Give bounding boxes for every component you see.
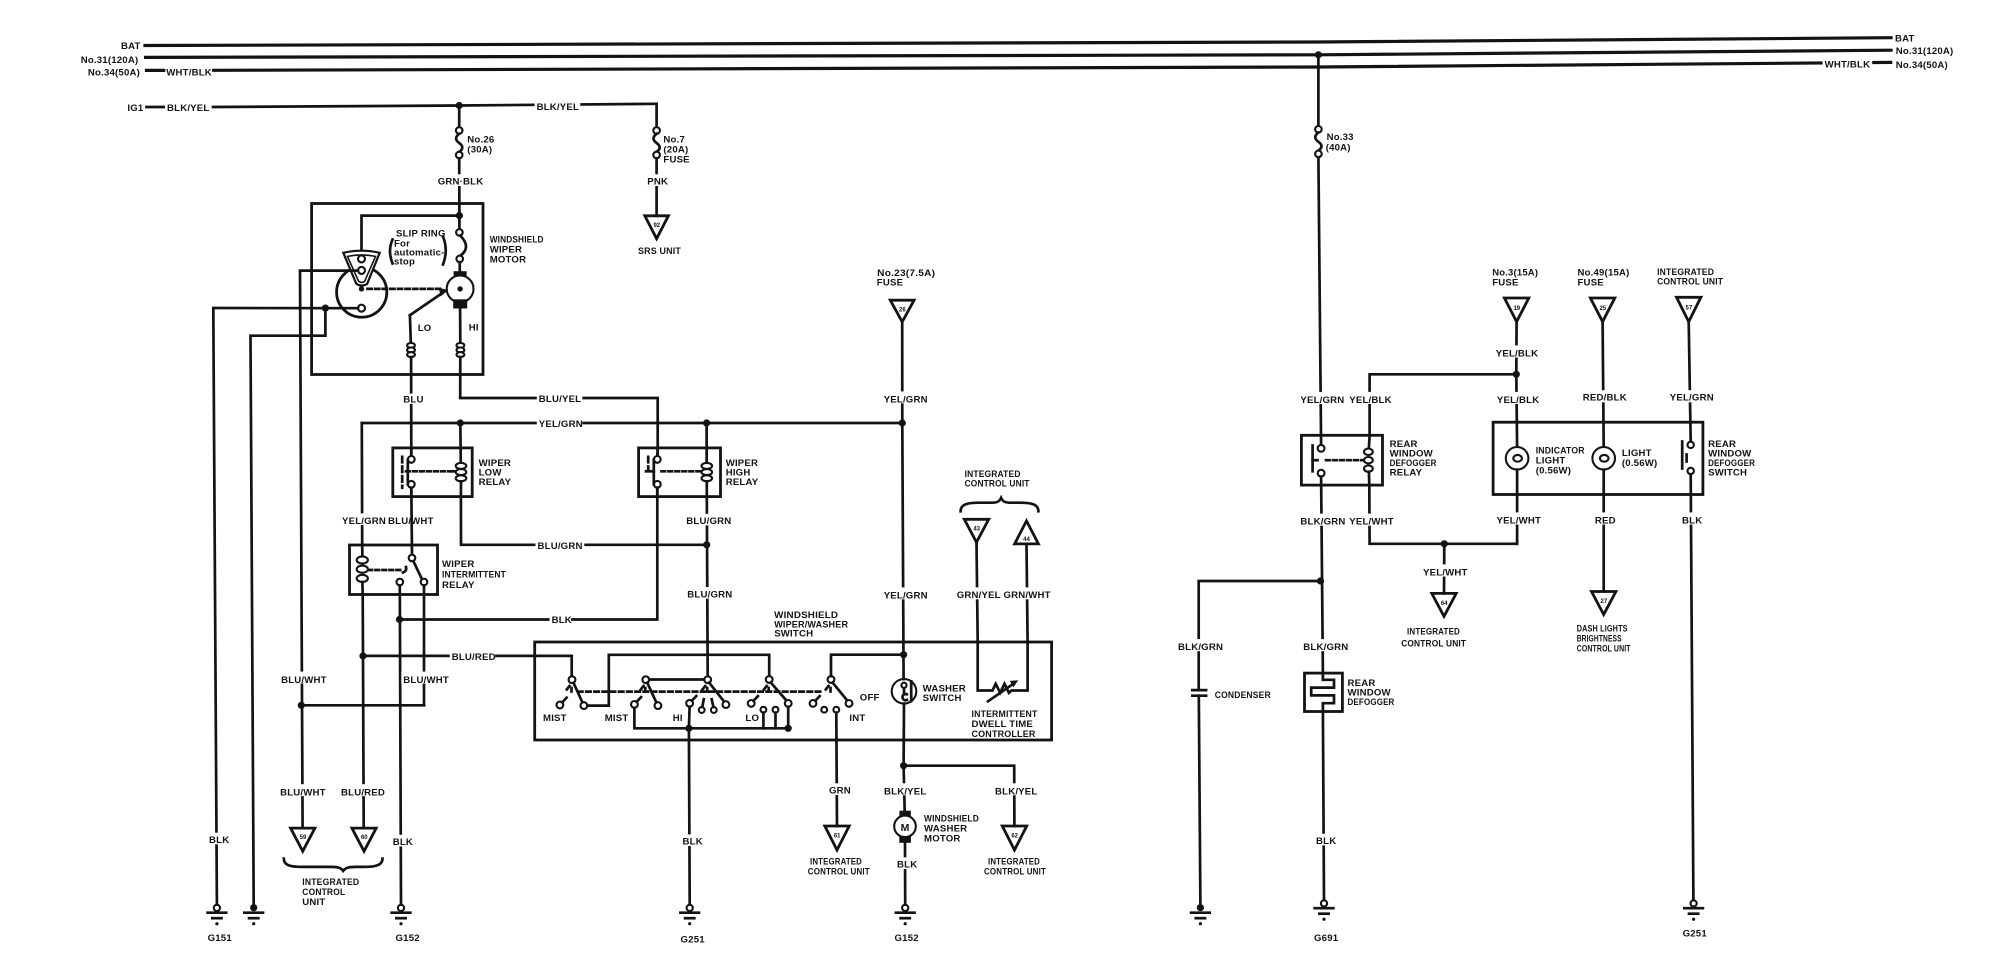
brace integrated control unit (left) <box>284 859 383 871</box>
junction LO ground bus <box>785 725 792 732</box>
label YEL/GRN (on wire) <box>537 417 583 429</box>
svg-text:INTEGRATED: INTEGRATED <box>1407 627 1460 638</box>
condenser <box>1192 690 1206 696</box>
defogger relay coil <box>1364 435 1373 485</box>
svg-text:44: 44 <box>1023 537 1030 543</box>
svg-text:HI: HI <box>673 713 683 724</box>
high relay coil <box>702 423 713 497</box>
svg-text:YEL/GRN: YEL/GRN <box>1300 395 1344 406</box>
label BLK (on wire) <box>895 857 916 869</box>
windshield washer motor <box>894 811 916 843</box>
label YEL/BLK (on wire) <box>1494 345 1539 357</box>
indicator light / defogger switch box <box>1493 422 1703 494</box>
svg-text:CONTROL UNIT: CONTROL UNIT <box>1401 639 1466 650</box>
low relay actuation dashes <box>406 470 451 473</box>
svg-text:MOTOR: MOTOR <box>490 255 527 266</box>
label YEL/WHT (on wire) <box>1421 564 1467 576</box>
intermittent relay actuation dashes <box>369 569 403 572</box>
junction YEL/GRN to low relay coil <box>457 419 464 426</box>
wire G251 ground bus down <box>688 728 691 905</box>
MIST switch 2 <box>631 676 661 709</box>
label PNK (on wire) <box>645 174 668 186</box>
OFF/INT switch <box>810 676 853 713</box>
wire YEL/WHT to connector 64 <box>1443 544 1446 594</box>
label BLK/YEL mid (on wire) <box>535 100 581 111</box>
wire BLK defogger to ground <box>1323 712 1324 901</box>
label SLIP RING (For automatic stop) <box>390 229 446 268</box>
wire BLK/GRN relay contact down <box>1321 477 1323 673</box>
label YEL/GRN (on wire) <box>340 513 383 525</box>
junction at washer column <box>900 651 907 658</box>
svg-text:SWITCH: SWITCH <box>1708 467 1747 478</box>
label BLU/RED (on wire) <box>450 649 495 661</box>
svg-text:WIPER: WIPER <box>442 559 474 570</box>
slip ring wiper wedge <box>343 251 379 286</box>
junction BLU/RED <box>359 652 366 659</box>
svg-text:57: 57 <box>1686 305 1693 311</box>
svg-text:62: 62 <box>1011 834 1018 840</box>
label YEL/GRN upper (on wire) <box>882 391 928 403</box>
svg-text:RELAY: RELAY <box>726 477 759 488</box>
high relay actuation dashes <box>662 470 701 473</box>
label BLK/GRN (on wire) <box>1298 514 1345 526</box>
wire YEL/GRN ICU to defogger switch <box>1689 322 1691 442</box>
label GRN (on wire) <box>827 783 849 795</box>
wire BLU/RED from intermittent coil <box>363 595 364 829</box>
connector 43 integrated control unit <box>964 519 988 542</box>
svg-text:YEL/GRN: YEL/GRN <box>539 419 583 430</box>
svg-text:DEFOGGER: DEFOGGER <box>1348 697 1395 708</box>
HI switch <box>686 676 729 713</box>
svg-text:43: 43 <box>973 527 980 533</box>
wire YEL/WHT relay coil down <box>1369 485 1516 544</box>
svg-text:BLU/WHT: BLU/WHT <box>281 675 327 686</box>
svg-text:BLU/GRN: BLU/GRN <box>686 516 731 527</box>
wire intermittent relay arm to BLU/WHT junction <box>423 585 426 705</box>
svg-text:CONTROL UNIT: CONTROL UNIT <box>808 867 870 878</box>
wire YEL/BLK to indicator light <box>1515 374 1518 447</box>
wire BLU/YEL (HI to wiper high relay) <box>460 357 658 456</box>
svg-text:BLU/GRN: BLU/GRN <box>687 589 732 600</box>
label BLU/YEL (on wire) <box>537 392 583 404</box>
svg-text:UNIT: UNIT <box>302 897 325 908</box>
svg-text:CONTROL UNIT: CONTROL UNIT <box>965 479 1030 490</box>
svg-text:YEL/GRN: YEL/GRN <box>884 590 928 601</box>
svg-text:LO: LO <box>745 713 759 724</box>
wire OFF/INT pivot to washer column <box>831 655 904 676</box>
label RED/BLK (on wire) <box>1581 390 1627 402</box>
svg-text:MOTOR: MOTOR <box>924 834 961 845</box>
svg-text:92: 92 <box>653 223 660 229</box>
svg-text:FUSE: FUSE <box>877 277 904 288</box>
svg-text:G152: G152 <box>396 933 420 944</box>
svg-text:MIST: MIST <box>543 713 567 724</box>
svg-text:26: 26 <box>899 308 906 314</box>
label BLK (on wire) <box>550 613 571 624</box>
wire BLK/YEL to fuse No.7 <box>655 104 658 128</box>
wire YEL/WHT indicator light down <box>1516 470 1519 544</box>
wire condenser to ground <box>1199 696 1201 905</box>
svg-text:BLK/YEL: BLK/YEL <box>167 103 209 114</box>
svg-text:G251: G251 <box>1683 929 1708 940</box>
svg-text:(0.56W): (0.56W) <box>1622 458 1658 469</box>
svg-text:GRN/WHT: GRN/WHT <box>1004 590 1051 601</box>
svg-text:BLK/YEL: BLK/YEL <box>884 786 926 797</box>
svg-text:IG1: IG1 <box>127 103 144 114</box>
wire MIST2 pivot to HI pivot <box>649 678 704 681</box>
wiper high relay box <box>639 448 721 497</box>
svg-text:YEL/WHT: YEL/WHT <box>1349 517 1394 528</box>
label BLK/YEL left (on wire) <box>882 783 928 795</box>
intermittent relay coil <box>357 556 368 594</box>
connector 61 to integrated control unit <box>825 826 849 850</box>
junction YEL/GRN at fuse 23 column <box>899 419 906 426</box>
slip ring pivot dot <box>359 286 364 291</box>
ground G151 <box>208 905 227 926</box>
wire LO arm contact to ground bus <box>787 707 790 729</box>
label YEL/GRN (on wire) <box>1298 392 1344 404</box>
label BLU/GRN lower (on wire) <box>685 587 731 599</box>
wire branch to chassis ground <box>251 308 326 905</box>
junction ground bus G251 <box>685 725 692 732</box>
light bulb <box>1592 447 1615 470</box>
svg-text:RELAY: RELAY <box>442 580 475 591</box>
wire PNK <box>655 158 658 216</box>
label BLU/GRN (on wire) <box>536 539 585 551</box>
svg-text:(40A): (40A) <box>1326 142 1351 153</box>
svg-text:RED: RED <box>1595 516 1616 527</box>
indicator light bulb <box>1506 447 1529 470</box>
ground G152 (washer motor) <box>896 905 915 926</box>
wire YEL/GRN down to washer switch <box>902 423 903 679</box>
label BLK/YEL right (on wire) <box>993 783 1039 795</box>
label GRN/YEL (on wire) <box>955 587 999 599</box>
junction BLU/WHT branch <box>298 702 305 709</box>
junction fuse No.3 column <box>1513 371 1520 378</box>
svg-text:stop: stop <box>394 257 415 268</box>
wire washer switch to washer motor <box>902 704 905 766</box>
switch mechanical link dashes <box>578 690 822 693</box>
label BLU/WHT upper (on wire) <box>279 672 324 684</box>
label YEL/WHT (on wire) <box>1495 512 1541 524</box>
connector 57 from integrated control unit <box>1677 297 1701 321</box>
dashed link slip ring to motor <box>368 288 444 291</box>
wire intermittent relay to G152 <box>400 585 401 905</box>
svg-text:YEL/WHT: YEL/WHT <box>1423 568 1468 579</box>
junction bus No.31 / fuse No.33 <box>1315 51 1322 58</box>
intermittent dwell time controller <box>978 642 1028 702</box>
connector 44 integrated control unit (upright) <box>1015 521 1039 544</box>
ground G251 <box>680 905 699 926</box>
svg-text:LO: LO <box>418 323 432 334</box>
junction BLK/YEL branch <box>900 762 907 769</box>
label RED (on wire) <box>1593 512 1616 524</box>
wire slip ring middle terminal to left <box>300 271 358 829</box>
low relay contact <box>402 448 414 497</box>
svg-text:BLU/RED: BLU/RED <box>341 787 385 798</box>
connector 59 to integrated control unit <box>291 828 315 851</box>
svg-text:RELAY: RELAY <box>1390 468 1423 479</box>
wire YEL/BLK relay coil up to fuse No.3 junction <box>1370 374 1517 435</box>
svg-text:BLK: BLK <box>1316 836 1336 847</box>
low relay coil <box>456 423 467 497</box>
svg-text:BLK/GRN: BLK/GRN <box>1178 642 1223 653</box>
wire to fuse No.26 <box>458 106 461 128</box>
svg-text:CONTROL UNIT: CONTROL UNIT <box>984 867 1046 878</box>
wiper low relay box <box>393 448 472 497</box>
wire BLK high relay contact to intermittent relay <box>400 488 658 620</box>
svg-text:BLK: BLK <box>1682 516 1702 527</box>
junction IG1/fuse No.26 <box>456 102 463 109</box>
svg-text:CONTROL UNIT: CONTROL UNIT <box>1577 644 1631 655</box>
label BLU/WHT right (on wire) <box>401 672 446 684</box>
wire INT contact to GRN <box>835 713 838 826</box>
fuse No.26 (30A) <box>456 127 463 158</box>
wire YEL/GRN fuse 23 to switch <box>901 322 904 423</box>
label YEL/GRN BLU/WHT row (low relay outputs) <box>386 513 432 525</box>
wiper intermittent relay box <box>350 545 438 595</box>
wire BLK/YEL branch to connector 62 <box>904 766 1015 826</box>
washer switch <box>892 679 917 704</box>
svg-text:BLU/YEL: BLU/YEL <box>539 394 581 405</box>
svg-text:YEL/GRN: YEL/GRN <box>342 516 386 527</box>
connector 26 from fuse No.23 <box>890 300 914 322</box>
svg-text:No.34(50A): No.34(50A) <box>88 68 140 79</box>
svg-text:FUSE: FUSE <box>1578 277 1605 288</box>
label BLK (on wire) <box>391 835 412 847</box>
svg-text:YEL/GRN: YEL/GRN <box>1670 392 1714 403</box>
chassis ground (condenser, solid) <box>1191 904 1210 925</box>
label BLK (on wire) <box>1314 834 1335 846</box>
svg-text:SWITCH: SWITCH <box>774 629 813 640</box>
wire slip ring bottom terminal to left (BLK) <box>213 308 358 905</box>
svg-text:GRN: GRN <box>829 786 851 797</box>
rear window defogger relay box <box>1301 435 1382 485</box>
label YEL/GRN lower (on wire) <box>882 587 928 599</box>
label BLU/GRN upper (on wire) <box>684 514 730 526</box>
wire IG1 BLK/YEL <box>147 106 164 109</box>
svg-text:BLK: BLK <box>683 837 703 848</box>
svg-text:BLK: BLK <box>209 835 229 846</box>
wire BLU/GRN low coil to high coil <box>461 497 707 545</box>
svg-text:BLU/RED: BLU/RED <box>452 652 496 663</box>
svg-text:WHT/BLK: WHT/BLK <box>1825 59 1871 70</box>
svg-text:YEL/GRN: YEL/GRN <box>884 394 928 405</box>
slip ring terminal bottom <box>358 305 365 312</box>
wire YEL/GRN fuse 33 to defogger relay <box>1318 157 1321 445</box>
svg-text:BLU: BLU <box>403 394 423 405</box>
connector 25 from fuse No.49 <box>1590 298 1614 322</box>
svg-text:G691: G691 <box>1314 933 1339 944</box>
bus line BAT <box>145 38 1891 46</box>
label GRN/WHT (on wire) <box>1002 587 1049 599</box>
wire MIST2 contact down to ground bus <box>634 708 788 729</box>
slip ring terminal top <box>358 255 365 262</box>
wire GRN/YEL to dwell controller <box>977 542 978 641</box>
svg-text:PNK: PNK <box>647 177 668 188</box>
svg-text:BLK/YEL: BLK/YEL <box>537 102 579 113</box>
svg-text:G152: G152 <box>895 933 919 944</box>
wire BLU/WHT horizontal <box>301 704 424 707</box>
svg-text:INTERMITTENT: INTERMITTENT <box>442 570 506 581</box>
svg-text:MIST: MIST <box>605 713 629 724</box>
slip ring terminal middle <box>358 267 365 274</box>
svg-text:FUSE: FUSE <box>1492 277 1519 288</box>
defogger relay actuation dashes <box>1326 459 1363 462</box>
svg-text:INT: INT <box>849 713 865 724</box>
svg-text:YEL/BLK: YEL/BLK <box>1497 395 1539 406</box>
svg-text:19: 19 <box>1513 306 1520 312</box>
svg-text:FUSE: FUSE <box>663 155 690 166</box>
label BLK (on wire) <box>1680 512 1701 524</box>
svg-text:No.31(120A): No.31(120A) <box>1896 46 1954 57</box>
wire BLK/YEL to motor <box>904 766 905 816</box>
label YEL/BLK lower (on wire) <box>1495 392 1540 404</box>
high relay contact <box>646 448 661 497</box>
wire YEL/GRN down to intermittent relay coil <box>360 423 363 556</box>
connector 92 to SRS unit <box>645 216 669 239</box>
label BLU/RED (on wire) <box>339 784 384 796</box>
wire BLK washer motor to ground <box>904 843 907 905</box>
connector 62 to integrated control unit <box>1002 826 1026 850</box>
svg-text:YEL/BLK: YEL/BLK <box>1349 395 1391 406</box>
label YEL/WHT (on wire) <box>1347 514 1393 526</box>
svg-text:GRN/YEL: GRN/YEL <box>957 590 1001 601</box>
junction condenser branch <box>1317 577 1324 584</box>
svg-text:No.34(50A): No.34(50A) <box>1896 60 1948 71</box>
wire BLU (LO to wiper low relay) <box>410 357 413 456</box>
label YEL/BLK (on wire) <box>1347 392 1392 404</box>
svg-text:M: M <box>901 822 910 834</box>
junction GRN-BLK inside motor box <box>456 212 463 219</box>
wire MIST1 to inner bus <box>587 655 769 706</box>
svg-text:BLU/WHT: BLU/WHT <box>403 675 449 686</box>
wire to fuse No.33 <box>1317 55 1320 126</box>
svg-text:25: 25 <box>1599 306 1606 312</box>
svg-text:No.31(120A): No.31(120A) <box>81 55 139 66</box>
svg-text:YEL/BLK: YEL/BLK <box>1496 349 1538 360</box>
brace integrated control unit (mid) <box>961 498 1039 511</box>
wire BLU/RED entry to MIST1 pivot <box>570 656 573 676</box>
svg-text:61: 61 <box>834 834 841 840</box>
label BLK (left, on wire) <box>207 833 228 845</box>
svg-text:RELAY: RELAY <box>479 477 512 488</box>
svg-text:G251: G251 <box>681 935 706 946</box>
label BLU/WHT lower (on wire) <box>278 784 323 796</box>
label GRN-BLK (on wire) <box>436 174 483 186</box>
chassis ground (solid) <box>244 904 263 925</box>
wire GRN/WHT to dwell controller <box>1027 544 1028 642</box>
ground G691 <box>1315 900 1334 921</box>
svg-text:BLK: BLK <box>393 837 413 848</box>
wire RED light down to connector 27 <box>1602 470 1605 592</box>
HI coil <box>457 343 465 357</box>
fuse No.33 (40A) <box>1315 126 1322 157</box>
svg-text:GRN·BLK: GRN·BLK <box>438 177 484 188</box>
label YEL/GRN (on wire) <box>1668 390 1714 402</box>
defogger relay contact <box>1313 445 1325 477</box>
svg-text:BLK/GRN: BLK/GRN <box>1303 642 1348 653</box>
LO coil <box>407 343 415 357</box>
windshield wiper/washer switch box <box>535 642 1052 740</box>
svg-text:BLU/WHT: BLU/WHT <box>280 787 326 798</box>
label BLK/GRN (condenser, on wire) <box>1176 639 1223 651</box>
HI brush wire <box>459 309 462 343</box>
svg-text:BLK/GRN: BLK/GRN <box>1300 517 1345 528</box>
svg-text:SRS UNIT: SRS UNIT <box>638 246 681 257</box>
svg-text:YEL/WHT: YEL/WHT <box>1497 516 1542 527</box>
circuit breaker (auto stop contact) in motor <box>456 216 466 273</box>
wire BLU/GRN high coil down to switch HI <box>705 497 709 677</box>
svg-text:27: 27 <box>1601 599 1608 605</box>
svg-text:64: 64 <box>1441 601 1448 607</box>
MIST switch 1 <box>557 676 588 709</box>
fuse No.7 (20A) <box>653 127 660 158</box>
bus line No.31(120A) <box>146 50 1891 57</box>
svg-text:(30A): (30A) <box>467 145 492 156</box>
junction YEL/GRN to high relay coil <box>703 419 710 426</box>
svg-text:59: 59 <box>300 835 307 841</box>
wire BLU/RED to wiper switch <box>363 655 572 658</box>
wire YEL/GRN horizontal <box>362 422 903 425</box>
rear window defogger element <box>1305 673 1343 711</box>
svg-text:BLK: BLK <box>552 615 572 626</box>
svg-text:G151: G151 <box>208 933 233 944</box>
svg-text:HI: HI <box>469 323 479 334</box>
wire junction to slip ring <box>362 216 460 256</box>
slip ring plate (circle) <box>337 267 387 317</box>
svg-text:60: 60 <box>361 835 368 841</box>
connector 27 to dash lights brightness control unit <box>1592 592 1616 615</box>
ground G251 (right) <box>1684 900 1703 921</box>
LO brush selector arm with arrow <box>410 288 448 316</box>
wiper motor armature M <box>447 271 474 308</box>
svg-text:SWITCH: SWITCH <box>923 693 962 704</box>
svg-text:BLK/YEL: BLK/YEL <box>995 786 1037 797</box>
junction BLK at intermittent relay output <box>396 616 403 623</box>
svg-text:BAT: BAT <box>1895 34 1915 45</box>
connector 64 to integrated control unit <box>1432 593 1456 616</box>
wire low relay contact to intermittent relay <box>410 488 413 555</box>
wire HI contact to ground bus <box>688 707 691 729</box>
svg-text:CONTROLLER: CONTROLLER <box>972 729 1036 740</box>
label BLK/GRN lower (on wire) <box>1301 639 1348 651</box>
rear window defogger switch <box>1682 442 1694 475</box>
label WHT/BLK right (on wire) <box>1823 57 1873 69</box>
svg-text:OFF: OFF <box>860 693 880 704</box>
svg-text:BLK: BLK <box>897 860 917 871</box>
ground G152 <box>392 905 411 926</box>
junction BLU/GRN <box>703 541 710 548</box>
LO switch <box>748 676 792 728</box>
svg-text:BLU/GRN: BLU/GRN <box>538 541 583 552</box>
junction YEL/WHT to connector 64 <box>1441 540 1448 547</box>
intermittent relay switch <box>397 555 428 586</box>
connector 60 to integrated control unit <box>352 828 376 851</box>
wire BLK defogger switch to ground <box>1691 474 1694 900</box>
svg-text:WHT/BLK: WHT/BLK <box>166 68 212 79</box>
svg-text:CONTROL UNIT: CONTROL UNIT <box>1657 276 1723 287</box>
svg-text:BAT: BAT <box>121 41 141 52</box>
wire YEL/BLK fuse No.3 down <box>1515 322 1518 375</box>
junction on BLK wire <box>322 305 329 312</box>
wire GRN-BLK <box>458 158 461 215</box>
svg-text:(0.56W): (0.56W) <box>1536 466 1572 477</box>
label BLU (on wire) <box>401 394 422 404</box>
label BLK (on wire) <box>681 834 702 846</box>
svg-text:RED/BLK: RED/BLK <box>1583 392 1627 403</box>
wire branch to condenser <box>1199 581 1321 688</box>
